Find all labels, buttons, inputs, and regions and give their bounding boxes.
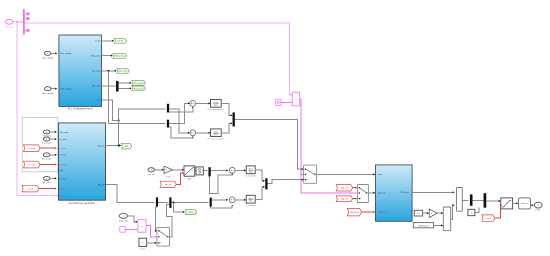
svg-text:F_convert: F_convert: [42, 142, 51, 145]
svg-text:Idc_mea: Idc_mea: [119, 71, 128, 73]
svg-text:Vdc_charge: Vdc_charge: [60, 52, 72, 55]
svg-text:Vfq_rf2: Vfq_rf2: [341, 198, 349, 201]
svg-text:Av(s): Av(s): [249, 197, 253, 200]
svg-text:wm_bus: wm_bus: [5, 27, 14, 29]
svg-text:Idc_mea: Idc_mea: [92, 71, 101, 73]
svg-text:phy_base: phy_base: [378, 212, 388, 214]
svg-text:iabc_charge: iabc_charge: [42, 92, 54, 95]
svg-text:VPQ_abc: VPQ_abc: [400, 192, 409, 194]
svg-text:Av(s): Av(s): [214, 101, 218, 104]
svg-text:Q controller: Q controller: [245, 204, 256, 207]
svg-text:D_mea: D_mea: [60, 178, 68, 180]
svg-text:VDq_mea: VDq_mea: [91, 56, 101, 58]
svg-text:Pmec: Pmec: [536, 210, 541, 212]
svg-text:df/dt: df/dt: [187, 177, 191, 180]
svg-text:D_max: D_max: [60, 164, 68, 166]
svg-text:B(s): B(s): [214, 134, 218, 136]
svg-text:phy_ref: phy_ref: [378, 192, 385, 195]
svg-text:iabc_charge: iabc_charge: [60, 88, 72, 91]
svg-text:q_ref: q_ref: [140, 248, 145, 251]
svg-text:PQ_mea2: PQ_mea2: [134, 88, 145, 90]
svg-text:Pulses: Pulses: [60, 195, 66, 197]
svg-text:B(s): B(s): [249, 171, 253, 173]
svg-text:Freal: Freal: [189, 211, 194, 214]
svg-text:pi_ph: pi_ph: [60, 189, 66, 191]
svg-text:Idc_conf: Idc_conf: [43, 182, 51, 184]
svg-text:F_max: F_max: [60, 148, 67, 150]
svg-text:1/Tm: 1/Tm: [166, 176, 171, 178]
svg-text:F_mea: F_mea: [60, 155, 67, 157]
svg-text:Freal_ing: Freal_ing: [119, 220, 129, 223]
svg-text:D_max: D_max: [28, 164, 36, 166]
svg-text:P central controller: P central controller: [207, 138, 225, 141]
svg-text:HQ_eff: HQ_eff: [98, 184, 105, 186]
svg-text:Q controller: Q controller: [245, 175, 256, 178]
svg-text:Vdc_mea: Vdc_mea: [60, 132, 70, 134]
svg-text:VDq_mea: VDq_mea: [115, 56, 126, 58]
svg-text:F_max: F_max: [28, 148, 36, 150]
svg-text:1: 1: [166, 170, 167, 172]
svg-text:Av(s): Av(s): [249, 168, 253, 171]
svg-text:D_convert: D_convert: [42, 157, 52, 160]
svg-text:id_ph: id_ph: [95, 41, 101, 43]
svg-text:PQ_mea1: PQ_mea1: [134, 83, 145, 85]
svg-text:F_cmd: F_cmd: [60, 139, 67, 141]
svg-text:ei_ph: ei_ph: [486, 218, 492, 220]
svg-text:Vdc_charge: Vdc_charge: [42, 57, 54, 60]
svg-text:Vfq_rf1: Vfq_rf1: [341, 187, 349, 190]
svg-text:id_ph: id_ph: [118, 41, 124, 43]
svg-text:B(s): B(s): [214, 105, 218, 107]
svg-text:Av(s): Av(s): [214, 130, 218, 133]
svg-text:wu_prf: wu_prf: [148, 173, 155, 176]
svg-text:1: 1: [431, 213, 432, 215]
svg-text:PLL & Measurements: PLL & Measurements: [68, 107, 94, 111]
svg-text:ei_ph: ei_ph: [28, 188, 34, 190]
svg-text:wu_pll: wu_pll: [165, 184, 172, 186]
svg-text:B(s): B(s): [249, 201, 253, 203]
svg-text:RPM/speed: RPM/speed: [418, 225, 430, 227]
svg-text:PQ_mea: PQ_mea: [92, 86, 101, 88]
svg-text:dq reference generator: dq reference generator: [69, 201, 96, 205]
svg-text:P central controller: P central controller: [207, 108, 225, 111]
svg-text:HQ: HQ: [125, 146, 129, 148]
svg-text:fq: fq: [141, 226, 143, 228]
svg-text:HQ_ref: HQ_ref: [98, 144, 105, 147]
svg-text:phy_base: phy_base: [350, 212, 360, 214]
